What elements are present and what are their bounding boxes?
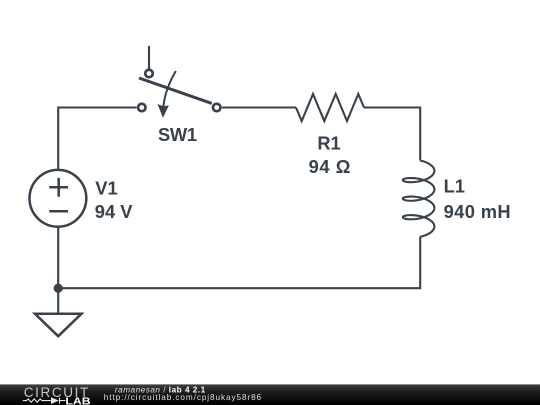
svg-text:R1: R1: [317, 133, 340, 154]
svg-text:940 mH: 940 mH: [444, 201, 511, 222]
SW1 blade: [139, 78, 212, 103]
svg-text:94 Ω: 94 Ω: [309, 156, 351, 177]
wire: [222, 106, 296, 108]
V1 plus sign: [49, 178, 68, 197]
svg-text:L1: L1: [444, 176, 465, 197]
voltage source V1: [30, 170, 87, 227]
junction dot: [54, 284, 63, 293]
switch SW1: [138, 70, 220, 118]
SW1 throw contact (right): [213, 104, 221, 112]
wire: [148, 46, 150, 69]
wire: [57, 288, 59, 314]
svg-text:V1: V1: [95, 177, 117, 198]
V1 minus sign: [49, 210, 68, 213]
wire: [58, 108, 136, 169]
SW1 common contact (left): [138, 104, 146, 112]
SW1 actuation arrow: [163, 71, 176, 107]
logo diode: [51, 397, 59, 404]
resistor R1: [296, 94, 364, 121]
ground: [35, 314, 82, 337]
svg-text:LAB: LAB: [65, 396, 90, 405]
wire: [58, 237, 420, 288]
wire: [364, 108, 420, 161]
svg-text:SW1: SW1: [158, 124, 197, 145]
inductor L1: [403, 161, 435, 237]
V1 circle body: [30, 170, 87, 227]
logo symbol: [23, 398, 66, 404]
svg-text:94 V: 94 V: [95, 201, 133, 222]
wire: [57, 228, 59, 289]
svg-text:http://circuitlab.com/cpj8ukay: http://circuitlab.com/cpj8ukay58r86: [104, 393, 262, 402]
SW1 throw contact (top): [145, 70, 153, 78]
